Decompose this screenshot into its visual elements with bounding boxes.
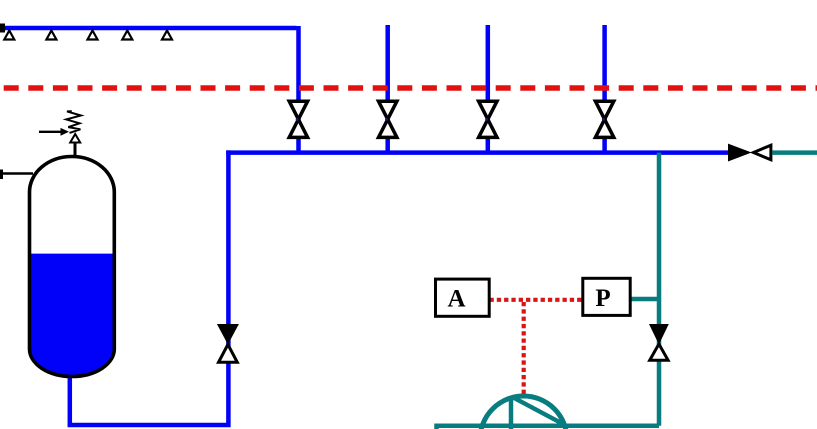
svg-text:A: A [447, 286, 465, 313]
svg-text:P: P [595, 285, 610, 312]
